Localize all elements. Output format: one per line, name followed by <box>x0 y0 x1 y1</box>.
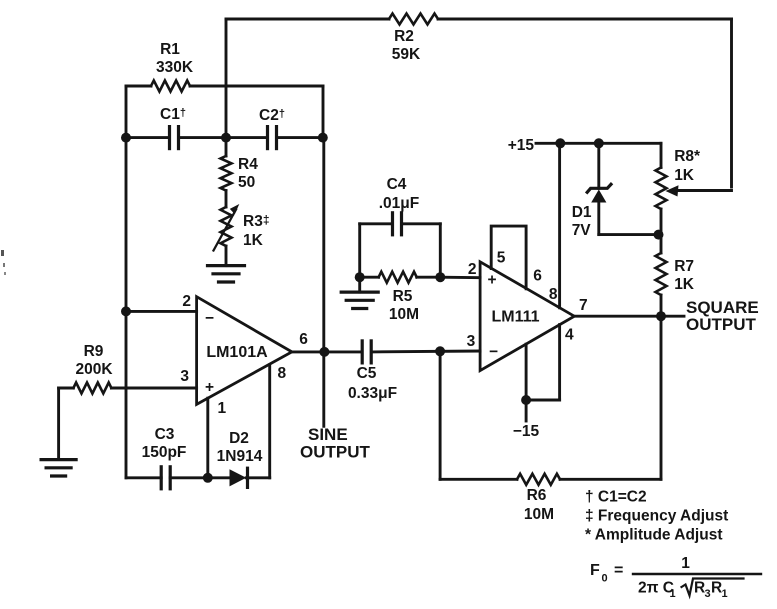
svg-text:10M: 10M <box>389 306 419 323</box>
svg-text:200K: 200K <box>75 361 113 378</box>
svg-text:+: + <box>205 379 214 396</box>
svg-text:2: 2 <box>182 293 191 310</box>
svg-text:C3: C3 <box>155 426 175 443</box>
svg-text:50: 50 <box>238 174 255 191</box>
svg-text:3: 3 <box>180 368 189 385</box>
svg-text:R3‡: R3‡ <box>243 213 270 230</box>
svg-text:R8*: R8* <box>674 148 701 165</box>
svg-text:8: 8 <box>278 365 287 382</box>
svg-text:OUTPUT: OUTPUT <box>686 315 757 334</box>
svg-text:R7: R7 <box>674 258 694 275</box>
svg-text:R9: R9 <box>84 343 104 360</box>
svg-text:10M: 10M <box>524 506 554 523</box>
svg-text:1: 1 <box>670 588 676 600</box>
svg-text:7V: 7V <box>572 222 592 239</box>
svg-text:D2: D2 <box>229 430 249 447</box>
svg-text:R2: R2 <box>394 28 414 45</box>
svg-text:.01μF: .01μF <box>379 195 420 212</box>
svg-text:‡ Frequency Adjust: ‡ Frequency Adjust <box>585 508 728 525</box>
svg-text:† C1=C2: † C1=C2 <box>585 489 647 506</box>
svg-text:3: 3 <box>467 333 476 350</box>
svg-text:0.33μF: 0.33μF <box>348 385 397 402</box>
svg-text:8: 8 <box>549 286 558 303</box>
svg-text:LM111: LM111 <box>491 309 539 326</box>
svg-text:59K: 59K <box>392 46 421 63</box>
svg-text:7: 7 <box>579 297 588 314</box>
svg-text:2: 2 <box>468 261 477 278</box>
svg-text:3: 3 <box>705 588 711 600</box>
svg-text:−15: −15 <box>513 423 540 440</box>
svg-text:1: 1 <box>722 588 728 600</box>
svg-text:C5: C5 <box>357 365 377 382</box>
svg-text:R6: R6 <box>527 487 547 504</box>
svg-text:C4: C4 <box>387 176 407 193</box>
svg-text:+: + <box>487 272 496 289</box>
svg-text:4: 4 <box>565 327 574 344</box>
svg-text:OUTPUT: OUTPUT <box>300 443 371 462</box>
svg-text:0: 0 <box>602 573 608 585</box>
svg-text:D1: D1 <box>572 204 592 221</box>
svg-text:−: − <box>489 344 498 361</box>
svg-text:1: 1 <box>218 400 227 417</box>
svg-text:=: = <box>614 562 623 579</box>
svg-text:1: 1 <box>681 555 690 572</box>
svg-text:1K: 1K <box>674 167 695 184</box>
svg-text:150pF: 150pF <box>142 444 187 461</box>
svg-text:F: F <box>590 562 600 579</box>
svg-text:C1†: C1† <box>160 106 186 123</box>
svg-text:C2†: C2† <box>259 107 285 124</box>
svg-text:+15: +15 <box>508 137 535 154</box>
svg-text:−: − <box>205 310 214 327</box>
svg-text:SINE: SINE <box>308 425 348 444</box>
svg-text:5: 5 <box>497 250 506 267</box>
svg-text:R5: R5 <box>393 288 413 305</box>
svg-text:* Amplitude Adjust: * Amplitude Adjust <box>585 527 723 544</box>
svg-text:LM101A: LM101A <box>206 344 268 361</box>
svg-text:330K: 330K <box>156 59 194 76</box>
svg-text:R1: R1 <box>160 41 180 58</box>
svg-text:6: 6 <box>299 331 308 348</box>
svg-text:6: 6 <box>533 268 542 285</box>
svg-text:1N914: 1N914 <box>217 448 263 465</box>
svg-text:1K: 1K <box>243 232 264 249</box>
svg-text:1K: 1K <box>674 276 695 293</box>
svg-text:R4: R4 <box>238 156 258 173</box>
